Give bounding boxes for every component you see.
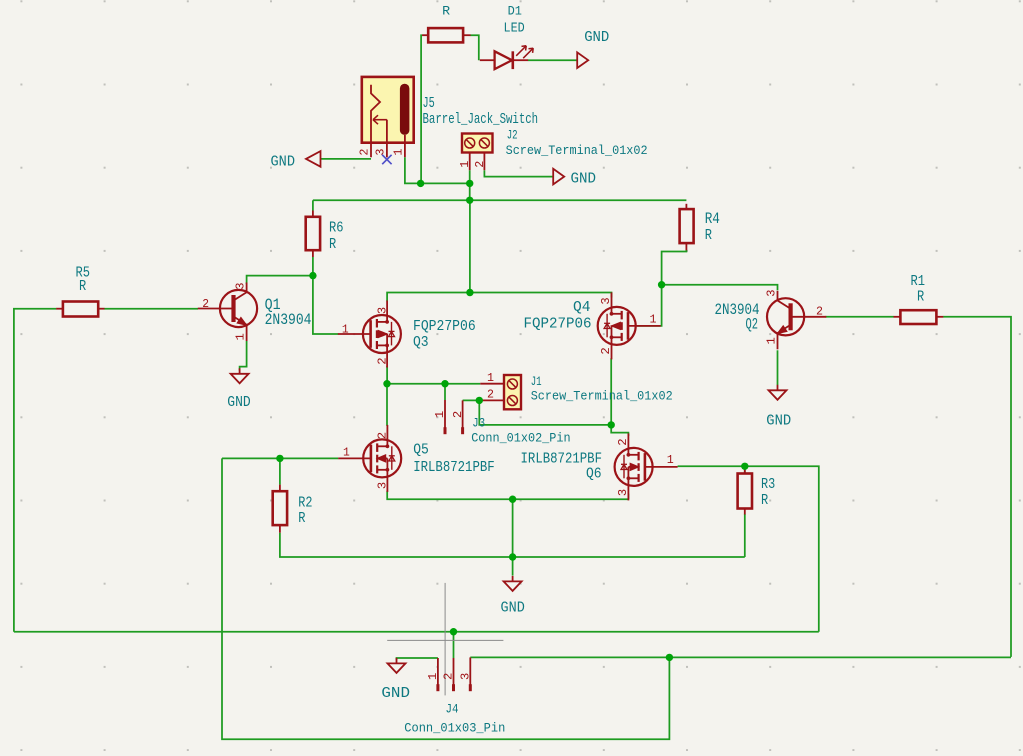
wire: Q4 drain down to node — [610, 358, 612, 425]
svg-text:FQP27P06: FQP27P06 — [413, 319, 476, 335]
pin 1 J2 — [469, 153, 471, 171]
svg-text:2: 2 — [451, 411, 465, 418]
svg-text:Screw_Terminal_01x02: Screw_Terminal_01x02 — [506, 144, 648, 158]
junction source-GND — [509, 496, 516, 503]
svg-text:1: 1 — [392, 149, 406, 156]
crosshair marker — [444, 583, 446, 696]
svg-text:3: 3 — [375, 307, 389, 314]
power GND (Q2) — [777, 385, 779, 391]
svg-text:2: 2 — [375, 357, 389, 364]
svg-text:GND: GND — [381, 685, 410, 702]
svg-text:J3: J3 — [472, 415, 485, 430]
junction R3 tap — [741, 463, 748, 470]
svg-text:2: 2 — [375, 432, 389, 439]
junction R6/Q1/Q3-gate — [309, 272, 316, 279]
wire: J2 pin1 down to rail — [469, 170, 471, 200]
power GND (J2) — [553, 169, 564, 185]
pin 1 J3 — [444, 400, 446, 428]
wire: J5 pin2 to GND arrow — [321, 158, 372, 160]
svg-text:Q4: Q4 — [573, 300, 591, 316]
resistor R5 — [56, 308, 63, 310]
connector J2 Screw_Terminal_01x02 — [462, 134, 493, 153]
svg-text:2: 2 — [442, 673, 456, 680]
svg-text:D1: D1 — [508, 3, 522, 18]
svg-text:3: 3 — [616, 489, 630, 496]
svg-text:R2: R2 — [298, 496, 312, 512]
resistor R (top) — [422, 34, 428, 36]
junction rail — [466, 197, 473, 204]
pin 1 J4 — [437, 658, 439, 685]
wire: R right lead to LED anode — [470, 35, 478, 60]
wire: R2 bottom to pulldown bus — [280, 533, 745, 557]
transistor Q4 FQP27P06 — [598, 292, 661, 359]
wire: R3 bottom lead — [744, 514, 746, 557]
svg-text:1: 1 — [650, 313, 657, 327]
svg-text:J5: J5 — [423, 94, 435, 112]
svg-text:2: 2 — [616, 438, 630, 445]
svg-text:3: 3 — [233, 282, 247, 289]
svg-text:1: 1 — [458, 161, 472, 168]
svg-text:R1: R1 — [911, 274, 926, 290]
svg-text:GND: GND — [227, 394, 250, 411]
svg-text:GND: GND — [584, 29, 609, 46]
wire: J4 pin1 to GND — [397, 658, 438, 660]
svg-text:3: 3 — [374, 149, 388, 156]
wire: J2 pin2 to GND arrow — [484, 170, 553, 176]
svg-text:R3: R3 — [761, 477, 775, 493]
svg-text:Q2: Q2 — [746, 315, 759, 333]
junction J3 pin1 tap — [441, 380, 448, 387]
wire: Q4 gate to R4 junction — [637, 285, 662, 326]
svg-text:Q6: Q6 — [586, 467, 602, 483]
svg-text:3: 3 — [458, 673, 472, 680]
junction Q4/Q6 leg — [608, 421, 615, 428]
pin 1 J1 — [480, 383, 504, 385]
svg-text:2: 2 — [599, 347, 613, 354]
power GND (Q1) — [239, 368, 241, 374]
wire: Q6 gate to R3 junction — [678, 465, 745, 467]
wire: R3 junction feedback loop right-down — [745, 466, 819, 631]
transistor Q5 IRLB8721PBF — [338, 425, 401, 492]
transistor Q3 FQP27P06 — [338, 301, 401, 368]
power GND (J5) — [306, 151, 321, 167]
wire: rail junction down to P-FET sources — [469, 200, 471, 292]
svg-text:R: R — [761, 493, 768, 509]
svg-text:2: 2 — [473, 161, 487, 168]
junction supply A — [417, 180, 424, 187]
wire: R top-left lead down to supply junction — [421, 35, 422, 183]
junction output node A — [383, 380, 390, 387]
svg-text:J2: J2 — [507, 129, 518, 143]
svg-text:Barrel_Jack_Switch: Barrel_Jack_Switch — [423, 111, 539, 128]
wire: R4 bottom to junction — [662, 250, 687, 285]
connector J5 Barrel_Jack_Switch — [362, 77, 414, 143]
svg-text:1: 1 — [426, 673, 440, 680]
svg-text:3: 3 — [599, 297, 613, 304]
power GND (LED) — [577, 52, 588, 68]
wire: R1 right to bottom-right trunk — [943, 317, 1011, 657]
wire: R5 right lead to Q1 base — [104, 308, 198, 310]
junction supply B — [466, 180, 473, 187]
svg-text:1: 1 — [343, 446, 350, 460]
pin 2 J2 — [483, 153, 485, 171]
junction P-FET sources — [466, 289, 473, 296]
resistor R4 — [685, 204, 687, 209]
svg-text:R: R — [442, 3, 450, 18]
svg-text:1: 1 — [342, 322, 349, 336]
wire: J3 pin1 branch — [444, 384, 446, 400]
wire: node B J1 pin2 to J3 pin2 — [463, 399, 480, 401]
svg-text:2: 2 — [202, 297, 209, 311]
svg-text:2: 2 — [816, 305, 823, 319]
junction R2 tap — [276, 455, 283, 462]
wire: Q5 gate trunk down and across bottom — [222, 458, 669, 739]
no-connect X on J5 pin 3 — [382, 155, 391, 164]
svg-text:Conn_01x02_Pin: Conn_01x02_Pin — [471, 431, 570, 446]
wire: J4 pin3 to bottom-right trunk — [470, 656, 1011, 658]
power GND (J4) — [396, 658, 398, 664]
junction pulldown bus GND — [509, 553, 516, 560]
svg-text:3: 3 — [764, 289, 778, 296]
power GND (center bottom) — [512, 576, 514, 582]
svg-text:1: 1 — [764, 337, 778, 344]
wire: junction to Q2 collector — [662, 285, 778, 291]
svg-text:R: R — [298, 511, 305, 527]
svg-text:2: 2 — [358, 149, 372, 156]
resistor R1 — [894, 316, 901, 318]
svg-text:R: R — [79, 279, 86, 295]
svg-text:R: R — [705, 226, 712, 244]
svg-text:Conn_01x03_Pin: Conn_01x03_Pin — [404, 721, 505, 736]
transistor Q2 2N3904 — [767, 291, 826, 350]
svg-text:GND: GND — [271, 154, 296, 171]
svg-text:R: R — [917, 289, 924, 305]
junction J4 pin2 tap — [450, 628, 457, 635]
wire: R6 bottom to Q1 collector and Q3 gate — [312, 257, 314, 276]
wire: LED cathode to GND arrow — [528, 59, 577, 61]
junction output node B — [476, 397, 483, 404]
wire: Q2 emitter to GND — [777, 350, 779, 385]
svg-text:Q3: Q3 — [413, 335, 429, 351]
wire: R2 top lead — [279, 458, 281, 484]
diode D1 LED — [480, 59, 495, 61]
junction J4 pin3 tap — [666, 654, 673, 661]
wire: node B down across to Q4/Q6 leg — [479, 400, 611, 425]
svg-text:GND: GND — [766, 412, 791, 429]
wire: Q6 source stub — [627, 494, 629, 500]
wire: Q5 gate wire with R2 tap — [222, 457, 338, 459]
wire: J4 pin2 up to feedback wire — [453, 632, 455, 658]
svg-text:GND: GND — [571, 171, 597, 188]
svg-text:1: 1 — [233, 333, 247, 340]
wire: Q5 source to Q6 source — [387, 491, 628, 499]
pin 2 J1 — [479, 399, 504, 401]
svg-text:3: 3 — [375, 482, 389, 489]
pin 3 J4 — [469, 657, 471, 684]
svg-text:J1: J1 — [531, 375, 542, 389]
svg-text:1: 1 — [487, 371, 494, 385]
resistor R3 — [744, 466, 746, 473]
svg-text:1: 1 — [667, 453, 674, 467]
pin 2 J4 — [453, 658, 455, 685]
resistor R2 — [279, 485, 281, 492]
svg-text:R6: R6 — [329, 221, 344, 237]
wire: J5 pin1 to supply junction — [405, 157, 470, 183]
wire: node A down to Q5 drain — [386, 384, 388, 426]
wire: Q2 base to R1 — [826, 316, 894, 318]
wire: Q1 emitter to GND — [240, 341, 247, 371]
connector J1 Screw_Terminal_01x02 — [504, 375, 521, 409]
svg-text:FQP27P06: FQP27P06 — [524, 317, 592, 333]
wire: source node down to GND through pulldown bus — [512, 499, 514, 575]
svg-text:2N3904: 2N3904 — [265, 311, 312, 329]
wire: R5 left lead to left trunk down — [14, 309, 57, 632]
pin 1 J5 — [404, 135, 406, 157]
wire: main supply rail — [313, 199, 687, 201]
pin 2 J3 — [462, 400, 464, 427]
svg-text:GND: GND — [501, 600, 525, 617]
wire: Q3 drain down to output node A — [387, 366, 480, 384]
svg-text:IRLB8721PBF: IRLB8721PBF — [413, 460, 495, 476]
svg-text:J4: J4 — [446, 702, 459, 717]
resistor R6 — [312, 211, 314, 217]
wire: long feedback wire left trunk — [14, 631, 819, 633]
svg-text:2: 2 — [487, 388, 494, 402]
svg-text:R: R — [329, 237, 336, 253]
transistor Q1 2N3904 — [198, 283, 257, 342]
wire: node down to Q6 drain — [611, 425, 628, 436]
svg-text:Q5: Q5 — [413, 443, 429, 459]
transistor Q6 IRLB8721PBF — [615, 433, 678, 500]
svg-text:IRLB8721PBF: IRLB8721PBF — [521, 451, 603, 467]
junction R4/Q4-gate/Q2 — [658, 281, 665, 288]
wire: R3 top lead — [744, 466, 746, 474]
svg-text:1: 1 — [433, 411, 447, 418]
wire: rail to R6 top — [312, 200, 314, 210]
svg-text:Screw_Terminal_01x02: Screw_Terminal_01x02 — [531, 390, 673, 404]
svg-text:LED: LED — [504, 21, 525, 37]
